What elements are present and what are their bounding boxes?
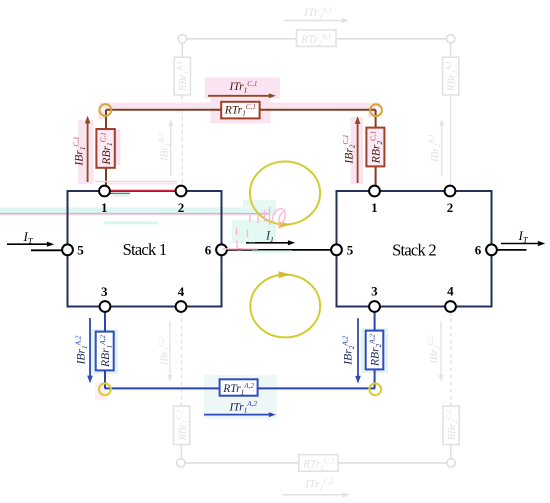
stack 2 box bbox=[337, 191, 492, 307]
resistor RBr1_A1 bbox=[174, 57, 190, 95]
highlight pink left red branch bbox=[78, 120, 94, 184]
artifact pink line across bbox=[0, 213, 270, 215]
wire gray left vertical dashed bottom bbox=[180, 312, 182, 407]
arrow IT right bbox=[501, 243, 539, 245]
label IBr1_A1 bbox=[157, 133, 171, 162]
highlight cyan RTr1_A2 area bbox=[204, 375, 277, 419]
svg-text:2: 2 bbox=[447, 200, 454, 215]
label IBr2_C2 bbox=[427, 335, 441, 365]
svg-text:1: 1 bbox=[371, 200, 378, 215]
terminal S2-3 bbox=[369, 301, 380, 312]
terminal S1-2 bbox=[176, 186, 187, 197]
artifact pink above stack1 edge bbox=[95, 181, 177, 182]
node gray top-right bbox=[446, 35, 454, 43]
wire red left vertical bbox=[105, 110, 107, 187]
artifact green dash on arrow bbox=[249, 242, 255, 244]
wire red overdraw stack1 top edge bbox=[110, 190, 178, 192]
wire middle link bbox=[227, 249, 332, 251]
artifact pink middle squiggles bbox=[237, 207, 285, 250]
terminal S1-1 bbox=[99, 186, 110, 197]
terminal S2-1 bbox=[369, 186, 380, 197]
svg-text:4: 4 bbox=[447, 283, 454, 298]
svg-text:4: 4 bbox=[178, 284, 185, 299]
wire gray right vertical dashed bottom bbox=[450, 312, 452, 407]
svg-text:5: 5 bbox=[77, 242, 84, 257]
resistor RTr2_C2 bbox=[299, 455, 339, 472]
wire IT left stub bbox=[31, 249, 62, 251]
svg-text:IT: IT bbox=[518, 228, 529, 245]
node yellow top-right bbox=[370, 104, 382, 116]
resistor RBr2_C1 bbox=[366, 128, 384, 167]
wire gray left vertical dashed bbox=[181, 95, 183, 186]
svg-text:IBr1A,1: IBr1A,1 bbox=[157, 133, 171, 162]
arrow loop bottom bbox=[279, 271, 292, 278]
wire gray right vertical lower bbox=[450, 444, 452, 458]
highlight cyan right blue box bbox=[361, 328, 388, 373]
resistor RBr1_A2 bbox=[96, 332, 114, 371]
artifact teal under red edge bbox=[110, 192, 130, 194]
node yellow bottom-right bbox=[369, 383, 381, 395]
arrow IBr1_A2 bbox=[89, 318, 91, 377]
wire blue left vertical bbox=[104, 312, 106, 389]
wire gray right vertical dashed bbox=[450, 95, 452, 186]
wire IT right stub bbox=[497, 249, 527, 251]
label IBr2_A1 bbox=[428, 134, 442, 163]
highlight cyan left blue box bbox=[90, 329, 118, 374]
svg-text:1: 1 bbox=[101, 200, 108, 215]
label IBr1_A2 bbox=[75, 335, 89, 365]
wire top gray rail bbox=[187, 38, 447, 40]
svg-text:ITr2A,1: ITr2A,1 bbox=[303, 5, 332, 20]
terminal S2-4 bbox=[445, 301, 456, 312]
artifact cyan middle upper block bbox=[243, 200, 276, 209]
artifact pink under I1 bbox=[222, 248, 258, 249]
wire blue right vertical bbox=[374, 312, 376, 389]
resistor RTr2_A1 bbox=[297, 30, 337, 47]
wire gray bottom rail bbox=[185, 462, 447, 464]
node gray bottom-right bbox=[447, 459, 455, 467]
arrow IBr1_C2 bbox=[169, 321, 171, 376]
terminal S2-2 bbox=[445, 186, 456, 197]
node gray top-left bbox=[178, 35, 186, 43]
wire red top rail bbox=[106, 109, 376, 111]
terminal S1-4 bbox=[176, 301, 187, 312]
arrow I1 bbox=[246, 242, 289, 244]
highlight pink right red branch bbox=[351, 117, 364, 184]
terminal S2-6 bbox=[486, 244, 497, 255]
svg-text:IBr1A,2: IBr1A,2 bbox=[75, 335, 89, 365]
resistor RBr1_C1 bbox=[96, 129, 114, 168]
arrow ITr2_C2 bbox=[283, 494, 343, 496]
arrow IT left bbox=[7, 243, 48, 245]
resistor RBr2_C2 bbox=[443, 406, 459, 445]
terminal S2-5 bbox=[331, 244, 342, 255]
svg-text:IBr2C,2: IBr2C,2 bbox=[427, 335, 441, 365]
resistor RTr1_A2 bbox=[220, 379, 258, 395]
svg-text:IBr2A,2: IBr2A,2 bbox=[342, 335, 356, 365]
svg-text:5: 5 bbox=[347, 242, 354, 257]
svg-text:IBr2A,1: IBr2A,1 bbox=[428, 134, 442, 163]
arrow IBr2_A2 bbox=[357, 318, 359, 377]
wire blue bottom rail bbox=[105, 387, 375, 389]
artifact red dash on wire bbox=[237, 249, 242, 251]
svg-text:6: 6 bbox=[205, 242, 212, 257]
arrow ITr1_C1 bbox=[208, 95, 269, 97]
artifact pink smudge bottom-left node bbox=[95, 382, 107, 400]
svg-text:6: 6 bbox=[475, 242, 482, 257]
highlight pink top wire bbox=[99, 103, 381, 109]
loop circle top bbox=[250, 162, 320, 225]
label IBr1_C2 bbox=[157, 336, 171, 366]
label IBr1_C1 bbox=[72, 136, 86, 166]
artifact cyan under I1 bbox=[252, 250, 292, 252]
svg-text:3: 3 bbox=[101, 284, 108, 299]
resistor RTr1_C1 bbox=[221, 102, 259, 119]
arrow IBr2_C1 bbox=[357, 122, 359, 183]
artifact cyan inside stack1 bbox=[104, 221, 158, 224]
resistor RBr1_C2 bbox=[174, 406, 190, 445]
svg-text:2: 2 bbox=[178, 200, 185, 215]
stack 1 box bbox=[68, 191, 222, 307]
artifact cyan right of terminal1 bbox=[113, 194, 130, 197]
wire red right vertical bbox=[375, 110, 377, 187]
node yellow bottom-left bbox=[99, 383, 111, 395]
resistor RBr2_A1 bbox=[443, 57, 459, 95]
node yellow top-left bbox=[100, 104, 112, 116]
highlight pink RTr1_C1 box bbox=[211, 98, 271, 124]
terminal S1-6 bbox=[216, 244, 227, 255]
svg-text:Stack 1: Stack 1 bbox=[123, 240, 167, 259]
svg-text:IT: IT bbox=[23, 229, 34, 246]
arrow IBr2_C2 bbox=[440, 321, 442, 376]
wire gray right vertical upper bbox=[450, 43, 452, 58]
arrow ITr1_A2 bbox=[204, 414, 269, 416]
svg-text:3: 3 bbox=[371, 283, 378, 298]
wire gray left vertical upper bbox=[181, 43, 183, 58]
artifact cyan middle lower block bbox=[232, 220, 276, 243]
loop circle bottom bbox=[250, 275, 320, 338]
terminal S1-3 bbox=[100, 301, 111, 312]
wire gray left vertical lower bbox=[180, 444, 182, 458]
svg-text:Stack 2: Stack 2 bbox=[392, 241, 436, 260]
arrow IBr1_A1 bbox=[170, 125, 172, 176]
highlight pink ITr1_C1 label bbox=[205, 78, 280, 99]
resistor RBr2_A2 bbox=[366, 331, 384, 370]
terminal S1-5 bbox=[62, 244, 73, 255]
svg-text:ITr2C,2: ITr2C,2 bbox=[304, 477, 334, 492]
label IBr2_A2 bbox=[342, 335, 356, 365]
node gray bottom-left bbox=[177, 459, 185, 467]
arrow IBr1_C1 bbox=[87, 122, 89, 183]
arrow loop top bbox=[278, 221, 291, 228]
arrow IBr2_A1 bbox=[441, 125, 443, 176]
artifact cyan band across bbox=[0, 207, 276, 215]
arrow ITr2_A1 bbox=[284, 20, 343, 22]
label IBr2_C1 bbox=[342, 134, 356, 164]
